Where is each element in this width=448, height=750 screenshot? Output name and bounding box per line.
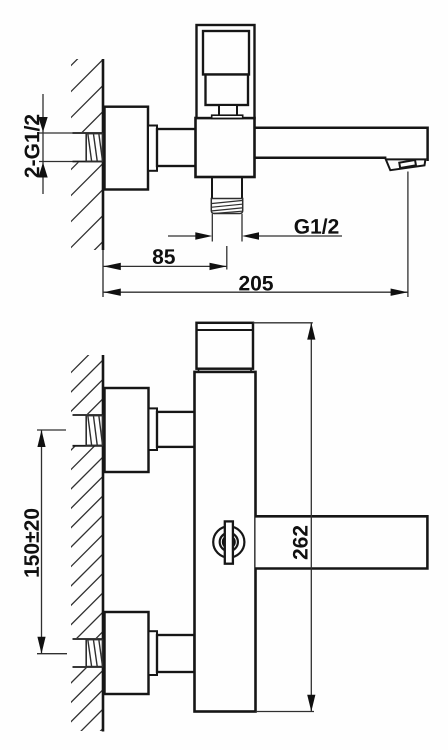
wall inlet stub clearing (top view)	[71, 132, 103, 163]
bottom inlet step ring	[149, 631, 158, 675]
dimension line 150±20	[41, 430, 43, 654]
extension line top of body (262)	[253, 322, 313, 324]
outlet centre extension line	[226, 246, 228, 270]
arrow up to stub bottom	[38, 163, 47, 178]
dimension G1/2 leader right	[259, 235, 342, 237]
dimension line 205	[104, 291, 408, 293]
bottom inlet thread	[86, 640, 103, 667]
label 85	[153, 249, 175, 264]
knob outer ring	[213, 526, 244, 557]
extension lines for 2-G1/2 dimension	[39, 132, 73, 134]
dimension line 2-G1/2	[42, 94, 44, 194]
spout (bottom view)	[256, 516, 428, 568]
knob lever bar	[225, 521, 233, 563]
wall face line (bottom view)	[102, 355, 105, 732]
extension line top inlet centre (150±20)	[37, 429, 66, 431]
body neck step	[198, 369, 200, 372]
wall face line (top view)	[102, 59, 105, 250]
label 150±20	[24, 509, 39, 577]
top inlet stub (bottom view)	[73, 414, 104, 416]
label 2-G1/2	[24, 115, 40, 178]
handle stem flange	[212, 115, 243, 118]
bottom inlet connector sleeve	[157, 635, 195, 672]
wall extension line down to dimensions	[102, 250, 104, 297]
main body (bottom view)	[195, 372, 256, 712]
label 205	[239, 276, 273, 291]
top inlet connector sleeve	[157, 412, 195, 447]
aerator centre extension line	[407, 172, 409, 298]
top inlet step ring	[149, 408, 158, 450]
top inlet escutcheon	[105, 388, 149, 472]
wall hatching (top view)	[70, 34, 103, 275]
spout (top view)	[255, 128, 428, 161]
escutcheon step ring (top view)	[148, 126, 157, 171]
dimension line 85	[104, 265, 227, 267]
knob inner ring	[220, 533, 238, 551]
bottom inlet escutcheon	[105, 612, 149, 694]
extension line bottom inlet centre (150±20)	[37, 653, 67, 655]
handle stem	[219, 105, 237, 116]
top inlet thread	[86, 416, 103, 446]
shower outlet stub below body	[211, 177, 213, 199]
aerator face (top view)	[399, 160, 416, 168]
handle outer frame (top view)	[197, 25, 255, 118]
dimension G1/2 leader left	[168, 235, 196, 237]
inlet stub thread (top view)	[86, 134, 103, 162]
wall hatching (bottom view)	[70, 341, 103, 750]
escutcheon plate (top view)	[105, 107, 149, 190]
inlet stub body (top view)	[73, 132, 104, 134]
arrow down to stub top	[38, 117, 47, 132]
knob hub	[222, 535, 236, 549]
wall inlet clearings (bottom view)	[71, 414, 103, 447]
label G1/2	[295, 218, 339, 234]
handle upper block	[203, 31, 249, 75]
valve body (top view)	[196, 118, 255, 177]
handle lower block	[206, 75, 249, 106]
body cap (bottom view)	[197, 323, 254, 369]
shower outlet thread	[211, 199, 242, 214]
connector sleeve (top view)	[157, 129, 196, 166]
bottom inlet stub (bottom view)	[73, 638, 104, 640]
extension lines from outlet thread	[211, 214, 213, 242]
dimension line 262	[310, 323, 312, 712]
body cap top band line	[197, 329, 254, 331]
aerator housing (top view)	[386, 159, 426, 170]
extension line bottom of body (262)	[256, 711, 315, 713]
label 262	[293, 526, 308, 559]
